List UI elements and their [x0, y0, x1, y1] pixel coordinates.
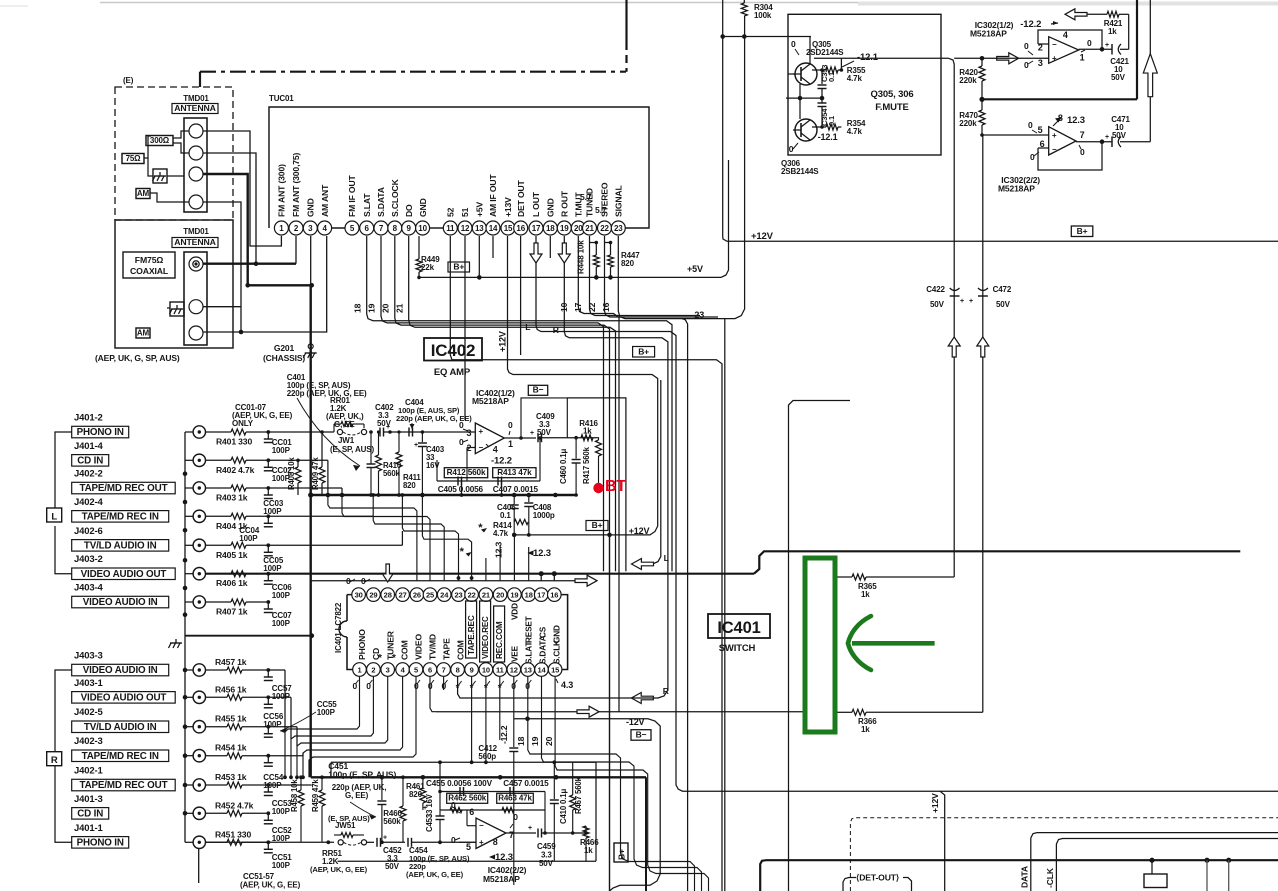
- capacitor CC03 100P: [263, 486, 284, 516]
- svg-text:J401-3: J401-3: [74, 794, 103, 805]
- svg-text:100P: 100P: [263, 564, 282, 573]
- svg-text:J402-3: J402-3: [74, 736, 103, 747]
- capacitor C422: [926, 285, 964, 309]
- svg-text:GND: GND: [553, 625, 562, 643]
- wire gnd stub L4: [185, 515, 193, 517]
- wire input line y58: [814, 58, 954, 577]
- label AEP UK G SP AUS: [95, 353, 180, 363]
- wire elbow pin26: [268, 460, 417, 580]
- label J402-5: [74, 707, 104, 718]
- IC401 top pin 20: [493, 588, 507, 602]
- svg-text:50V: 50V: [539, 859, 554, 868]
- svg-text:SWITCH: SWITCH: [719, 643, 756, 654]
- label -CLK rotated: [1045, 867, 1055, 888]
- IC401 top pin 19: [508, 588, 522, 602]
- svg-text:3: 3: [308, 224, 313, 233]
- svg-text:18: 18: [516, 736, 526, 746]
- resistor R449 22k: [416, 236, 440, 277]
- wire pin18 reset up: [528, 547, 530, 581]
- label 0 pin6: [1030, 152, 1039, 162]
- svg-text:C422: C422: [926, 285, 945, 294]
- svg-text:L: L: [664, 553, 669, 563]
- label CC55 100P: [280, 700, 337, 733]
- resistor R457: [206, 657, 269, 673]
- label B+ eq2: [614, 843, 628, 862]
- svg-text:VIDEO AUDIO IN: VIDEO AUDIO IN: [83, 597, 158, 608]
- svg-text:CD IN: CD IN: [77, 809, 103, 820]
- svg-text:0: 0: [451, 800, 456, 810]
- svg-text:R448 10k: R448 10k: [577, 240, 586, 274]
- tuner pin 3 label: [306, 198, 316, 217]
- capacitor CC57 100P: [264, 668, 292, 701]
- svg-text:JW1: JW1: [338, 436, 355, 445]
- svg-text:11: 11: [496, 665, 504, 674]
- tuner pin 17 label: [531, 191, 541, 217]
- svg-text:5.7: 5.7: [580, 192, 592, 202]
- svg-text:R: R: [553, 325, 560, 335]
- wire R366 line left: [436, 711, 836, 713]
- svg-text:R: R: [663, 686, 670, 696]
- svg-text:L: L: [51, 511, 57, 522]
- svg-text:B−: B−: [636, 730, 647, 740]
- tuner pin 20 label: [574, 192, 584, 217]
- IC401 bottom pin 2: [367, 663, 381, 677]
- svg-text:560k: 560k: [383, 469, 401, 478]
- op-amp IC402 2/2: [476, 818, 506, 849]
- resistor R406: [206, 571, 269, 589]
- svg-text:8: 8: [456, 665, 460, 674]
- svg-text:B+: B+: [638, 346, 649, 356]
- svg-text:0: 0: [1024, 41, 1029, 51]
- svg-text:R463 47k: R463 47k: [498, 794, 532, 803]
- svg-text:+12V: +12V: [498, 331, 508, 352]
- jumper JW51: [328, 814, 370, 845]
- label IC401 LC7822: [334, 602, 343, 653]
- label pin4 eq: [486, 444, 498, 455]
- tuner pin 6: [360, 221, 374, 235]
- svg-text:R457 1k: R457 1k: [215, 657, 247, 667]
- label Q305: [806, 40, 844, 57]
- resistor R304 100k: [741, 0, 773, 20]
- wire FM antenna bus thick: [203, 174, 314, 288]
- test point BT: [593, 483, 603, 493]
- wire pin16 up: [553, 574, 555, 581]
- svg-text:0: 0: [791, 39, 796, 49]
- svg-text:10: 10: [482, 665, 490, 674]
- IC401 top pin 18: [522, 588, 536, 602]
- svg-text:13: 13: [475, 224, 484, 233]
- svg-text:CS: CS: [539, 626, 548, 638]
- svg-text:C410 0.1μ: C410 0.1μ: [559, 789, 568, 824]
- svg-text:25: 25: [426, 590, 434, 599]
- wire pin2 elbow: [268, 676, 373, 779]
- label AM upper: [136, 189, 150, 199]
- resistor R453: [206, 772, 269, 788]
- svg-text:TV/MD: TV/MD: [427, 634, 437, 660]
- label +12V rotated br: [930, 793, 940, 813]
- wire AM lower to pin4: [203, 236, 327, 334]
- tuner pin 13: [472, 221, 486, 235]
- svg-text:100P: 100P: [272, 807, 291, 816]
- svg-text:33 16V: 33 16V: [425, 793, 434, 818]
- wire pin21 up: [485, 558, 487, 581]
- label -12.1 lower: [818, 132, 838, 142]
- wire thick bottom bus: [760, 860, 1278, 891]
- IC401 pin label TAPE: [441, 638, 451, 660]
- svg-text:5: 5: [350, 224, 355, 233]
- label JW1: [330, 436, 374, 454]
- label arrow 12.3 eq2: [489, 852, 513, 863]
- wire gnd stub R3: [185, 726, 193, 728]
- capacitor CC04 100P: [239, 514, 272, 543]
- IC401 pin label VIDEO: [413, 634, 423, 660]
- svg-text:+: +: [530, 430, 534, 437]
- svg-text:5: 5: [414, 665, 418, 674]
- resistor R459 47k: [311, 775, 325, 842]
- svg-text:CD IN: CD IN: [77, 456, 103, 467]
- svg-text:100P: 100P: [272, 591, 291, 600]
- svg-text:51: 51: [460, 207, 470, 217]
- svg-text:16: 16: [516, 224, 525, 233]
- capacitor C421: [1105, 42, 1130, 82]
- connector TV/LD AUDIO IN L: [72, 539, 206, 551]
- label star botpin: [484, 681, 490, 694]
- label star botpin: [470, 681, 476, 694]
- svg-text:100P: 100P: [272, 861, 291, 870]
- wire opamp2 feedback: [1038, 142, 1102, 170]
- wire feedback resistor line: [574, 436, 596, 440]
- label 22 rotated: [587, 302, 597, 312]
- wire eq minus input: [467, 448, 475, 482]
- svg-text:R455 1k: R455 1k: [215, 714, 247, 724]
- svg-text:VEE: VEE: [511, 645, 520, 662]
- svg-text:S.LAT: S.LAT: [362, 193, 372, 217]
- wire opamp2 plus input: [980, 133, 1048, 712]
- svg-text:7: 7: [1080, 130, 1085, 140]
- label IC302 1/2: [970, 20, 1014, 39]
- tuner pin 15 label: [503, 197, 513, 217]
- svg-text:VIDEO AUDIO OUT: VIDEO AUDIO OUT: [81, 569, 167, 580]
- svg-text:DATA: DATA: [1020, 866, 1030, 888]
- svg-text:-CLK: -CLK: [1045, 867, 1055, 888]
- svg-text:J402-1: J402-1: [74, 766, 104, 777]
- wire dashed control: [850, 818, 1278, 891]
- wire output up arrow: [1149, 0, 1151, 142]
- component box bottom right: [1144, 860, 1167, 887]
- wire eq2 out to R467: [571, 831, 586, 835]
- IC401 chip body: [339, 595, 568, 670]
- wire C451 bus thick: [311, 775, 646, 891]
- svg-text:ANTENNA: ANTENNA: [174, 103, 216, 113]
- label B+ right: [1071, 226, 1093, 237]
- tuner pin 14 label: [488, 174, 498, 217]
- resistor R417 560k: [582, 438, 602, 486]
- label AM lower: [136, 328, 150, 338]
- svg-text:20: 20: [544, 736, 554, 746]
- resistor R451: [206, 829, 269, 845]
- svg-text:−: −: [479, 443, 484, 452]
- sheet arrow into opamp1: [997, 53, 1019, 64]
- label 0 out2: [1079, 145, 1085, 157]
- svg-text:3: 3: [467, 428, 472, 438]
- IC401 top pin 27: [396, 588, 410, 602]
- annotation green arrow: [848, 616, 935, 670]
- svg-text:52: 52: [446, 207, 456, 217]
- resistor R413 47k box: [493, 468, 536, 478]
- sheet arrow right y580: [575, 575, 597, 586]
- tuner pin 19 label: [560, 190, 570, 217]
- label DET-OUT: [843, 873, 912, 891]
- label 23 wire: [694, 310, 704, 320]
- IC401 top pin 30: [352, 588, 366, 602]
- svg-text:6: 6: [469, 807, 474, 817]
- IC401 label REC.COM: [494, 606, 505, 662]
- svg-text:0: 0: [361, 576, 366, 586]
- label pin5 eq2: [466, 842, 471, 852]
- tuner pin 16 label: [516, 179, 526, 217]
- IC401 top pin 25: [423, 588, 437, 602]
- svg-text:+: +: [1105, 134, 1109, 141]
- wire gnd stub R2: [185, 696, 193, 698]
- svg-text:50V: 50V: [377, 419, 392, 428]
- capacitor CC01 100P: [264, 430, 292, 455]
- svg-text:R467 560k: R467 560k: [574, 776, 583, 814]
- svg-text:24: 24: [440, 590, 449, 599]
- svg-text:12: 12: [461, 224, 470, 233]
- terminal 1: [189, 124, 203, 138]
- tuner pin 2 label: [291, 152, 301, 217]
- wire x686 stub: [682, 342, 684, 343]
- wire terminal1 to tuner pin1: [203, 131, 281, 246]
- label 0 botpin c: [525, 680, 531, 691]
- tuner pin 23: [611, 221, 625, 235]
- resistor R365 1k: [836, 574, 954, 599]
- sheet arrow pin17 L: [530, 243, 542, 263]
- svg-text:15: 15: [504, 224, 513, 233]
- label 19 ic401: [530, 736, 540, 746]
- tuner pin 10: [416, 221, 430, 235]
- svg-text:R406 1k: R406 1k: [216, 578, 248, 588]
- svg-text:16V: 16V: [426, 461, 440, 470]
- wire R phono gnd tail: [198, 849, 200, 884]
- capacitor C409: [530, 412, 576, 442]
- svg-text:C455 0.0056 100V: C455 0.0056 100V: [426, 779, 493, 788]
- wire +12V drop bottomright: [940, 791, 945, 891]
- tuner pin 16: [514, 221, 528, 235]
- IC401 bottom pin 10: [479, 663, 493, 677]
- svg-text:L OUT: L OUT: [531, 191, 541, 217]
- sheet arrow pin28: [382, 564, 393, 582]
- connector PHONO IN R: [72, 836, 206, 848]
- svg-text:50V: 50V: [537, 428, 552, 437]
- svg-text:21: 21: [482, 590, 490, 599]
- svg-text:TAPE.REC: TAPE.REC: [467, 615, 476, 655]
- label J403-4: [74, 583, 104, 594]
- svg-text:100P: 100P: [263, 507, 282, 516]
- label IC302 2/2: [998, 175, 1040, 193]
- svg-text:PHONO: PHONO: [357, 629, 367, 660]
- svg-text:12.3: 12.3: [494, 542, 504, 558]
- connector TV/LD AUDIO IN R: [72, 721, 206, 733]
- label J401-2: [74, 413, 103, 424]
- op-amp IC402 1/2: [475, 423, 504, 454]
- svg-text:4.7k: 4.7k: [847, 127, 863, 136]
- svg-text:7: 7: [379, 224, 384, 233]
- bracket L group: [47, 432, 72, 574]
- svg-text:3: 3: [1038, 58, 1043, 68]
- svg-text:COM: COM: [455, 640, 465, 660]
- svg-text:(AEP, UK, G, EE): (AEP, UK, G, EE): [310, 865, 368, 874]
- wire pin17 L OUT: [536, 236, 1278, 791]
- tuner pin 5 label: [347, 174, 357, 217]
- svg-text:M5218AP: M5218AP: [970, 29, 1007, 39]
- capacitor CC56 100P: [263, 695, 284, 729]
- label pin3: [1038, 58, 1043, 68]
- tuner pin 18: [543, 221, 557, 235]
- terminal AM lower: [189, 326, 203, 340]
- resistor R461 820: [406, 777, 426, 810]
- svg-text:0.1: 0.1: [500, 511, 511, 520]
- IC401 top pin 17: [534, 588, 548, 602]
- connector TAPE/MD REC IN R: [72, 750, 206, 762]
- wire eq section box: [567, 398, 626, 571]
- wire +12V node: [512, 533, 612, 538]
- label L arrow: [664, 553, 669, 563]
- label EQ AMP: [434, 367, 471, 378]
- capacitor CC05 100P: [263, 543, 284, 573]
- resistor R466 1k: [580, 826, 599, 861]
- wire coax line thick: [203, 236, 296, 264]
- svg-text:GND: GND: [546, 198, 556, 217]
- svg-text:IC401: IC401: [717, 619, 760, 637]
- wire opamp1 output: [1079, 47, 1112, 52]
- IC401 top pin 28: [381, 588, 395, 602]
- svg-text:+: +: [383, 834, 387, 841]
- tuner pin 3: [303, 221, 317, 235]
- label J402-4: [74, 497, 104, 508]
- resistor R470 220k: [959, 99, 985, 135]
- svg-text:J402-4: J402-4: [74, 497, 104, 508]
- svg-text:VIDEO AUDIO IN: VIDEO AUDIO IN: [83, 665, 158, 676]
- svg-text:*: *: [392, 653, 396, 664]
- label 5.7 stereo: [595, 205, 607, 215]
- svg-text:S.LAT: S.LAT: [525, 642, 534, 664]
- resistor R420 220k: [959, 58, 985, 99]
- wire pin19 vdd up: [513, 535, 515, 581]
- svg-text:VDD: VDD: [511, 603, 520, 620]
- svg-text:0: 0: [459, 420, 464, 430]
- svg-text:1k: 1k: [583, 427, 592, 436]
- svg-text:-12.1: -12.1: [818, 132, 838, 142]
- terminal 3: [189, 167, 203, 181]
- IC401 bottom pin 5: [409, 663, 423, 677]
- svg-text:100P: 100P: [263, 781, 282, 790]
- dashed enclosure TMD01 upper: [115, 87, 233, 220]
- svg-text:R452 4.7k: R452 4.7k: [215, 800, 254, 810]
- label J401-1: [74, 823, 104, 834]
- svg-text:C457 0.0015: C457 0.0015: [503, 779, 549, 788]
- svg-text:R413 47k: R413 47k: [497, 468, 532, 477]
- svg-text:3: 3: [386, 665, 390, 674]
- connector TAPE/MD REC IN L: [72, 510, 206, 522]
- svg-text:75Ω: 75Ω: [126, 154, 142, 163]
- svg-text:20: 20: [574, 224, 583, 233]
- wire vertical x724: [724, 319, 726, 891]
- label -12.2 eq: [491, 456, 512, 467]
- svg-text:J403-1: J403-1: [74, 678, 104, 689]
- wire pin11 down: [499, 676, 501, 740]
- IC401 label GND: [553, 625, 562, 643]
- capacitor C472: [969, 285, 1012, 309]
- wire phono line segment: [268, 431, 334, 433]
- jumper JW1: [334, 422, 367, 436]
- resistor R407: [206, 599, 269, 617]
- svg-text:560p: 560p: [478, 752, 496, 761]
- op-amp IC302 1/2: [1049, 37, 1079, 64]
- wire pin7 S.DATA: [381, 236, 604, 571]
- wire pin1 elbow: [268, 670, 359, 779]
- svg-text:10: 10: [418, 224, 427, 233]
- label J403-2: [74, 554, 103, 565]
- tuner pin 7 label: [376, 187, 386, 217]
- label CC51-57 note: [240, 872, 301, 890]
- svg-text:AM IF OUT: AM IF OUT: [488, 174, 498, 217]
- capacitor C451 cap: [377, 777, 386, 844]
- wire L ground bus: [183, 432, 188, 615]
- tuner pin 14: [486, 221, 500, 235]
- svg-text:50V: 50V: [385, 862, 400, 871]
- resistor R460 560k: [383, 775, 406, 842]
- label star botpin: [498, 681, 504, 694]
- label pin6: [1040, 139, 1045, 149]
- wire pin19 R OUT: [564, 236, 668, 698]
- IC401 pin label COM: [455, 640, 465, 660]
- wire thick L bus: [206, 551, 1241, 576]
- label pin5: [1038, 125, 1043, 135]
- svg-text:+: +: [1052, 131, 1057, 140]
- svg-text:+12V: +12V: [930, 793, 940, 813]
- tuner pin 5: [345, 221, 359, 235]
- resistor R409 47k: [311, 430, 325, 495]
- svg-text:M5218AP: M5218AP: [483, 874, 520, 884]
- label 0 Q306: [789, 143, 798, 154]
- scan artifact top line: [0, 3, 1278, 7]
- label CC01-07 note: [232, 403, 293, 428]
- IC401 label VEE: [511, 645, 520, 662]
- label pin7 eq2: [509, 830, 514, 840]
- wire +5V line: [417, 160, 728, 279]
- svg-text:C472: C472: [993, 285, 1012, 294]
- tuner pin 18 label: [546, 198, 556, 217]
- svg-text:+5V: +5V: [687, 264, 703, 274]
- svg-text:23: 23: [694, 310, 704, 320]
- tuner pin 12 label: [460, 207, 470, 217]
- svg-text:20: 20: [381, 303, 391, 313]
- tuner pin 10 label: [418, 198, 428, 217]
- svg-text:100P: 100P: [272, 619, 291, 628]
- svg-text:+13V: +13V: [503, 197, 513, 217]
- wire elbow pin25: [268, 488, 430, 581]
- svg-text:21: 21: [585, 224, 594, 233]
- capacitor CC52 100P: [264, 811, 292, 843]
- sheet arrow L into IC401: [632, 559, 654, 570]
- svg-text:VIDEO: VIDEO: [413, 634, 423, 660]
- tuner pin 1 label: [277, 164, 287, 217]
- svg-text:29: 29: [369, 590, 377, 599]
- svg-text:22: 22: [600, 224, 609, 233]
- wire eq2 band2: [440, 807, 545, 812]
- svg-text:COAXIAL: COAXIAL: [130, 266, 169, 276]
